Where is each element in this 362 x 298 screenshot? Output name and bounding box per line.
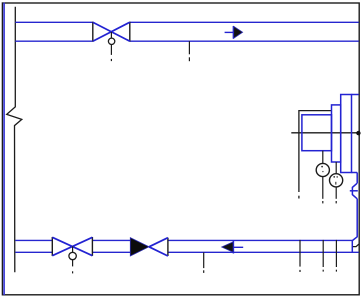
wire: suction ledge [352, 172, 358, 174]
wire: suction riser lower with chamfer into bottom pipe [352, 199, 357, 241]
pump P1 bearing box B [332, 105, 341, 162]
wire: discharge pipe to right border [352, 94, 359, 96]
instrument bubble I2 [330, 174, 343, 187]
pump P1 centerline [291, 132, 359, 134]
wire: top pipe upper line [15, 21, 359, 23]
wire: suction riser upper [356, 173, 358, 184]
reducer on suction riser [350, 183, 358, 199]
wire: blue pipe riser along left border [3, 3, 5, 295]
instrument line from box B [335, 162, 337, 174]
instrument bubble I1 [316, 163, 329, 176]
valve V1 stem with circle [108, 32, 114, 61]
signal line crossing pipe at x336 [335, 240, 337, 272]
signal line crossing pipe at x323 [322, 240, 324, 272]
wire: top pipe lower line [15, 40, 359, 42]
pump P1 motor box C [341, 95, 352, 173]
node: branch stub below top pipe [188, 41, 190, 61]
valve V2 stem with circle [69, 246, 76, 273]
wire: bottom pipe lower line [15, 251, 359, 253]
node: black step mark near bottom-right corner [353, 244, 359, 247]
instrument line below I2 [335, 187, 337, 204]
check valve V3 on bottom pipe (filled left disc) [130, 238, 168, 256]
flow arrow on top pipe (right) [225, 26, 243, 39]
node: branch stub below bottom pipe at x204 [203, 252, 205, 273]
instrument line from box A [322, 151, 324, 164]
valve V1 on top pipe [93, 22, 130, 42]
pump P1 shaft arrowhead at border [356, 130, 360, 137]
wire: bottom pipe upper line [15, 239, 352, 241]
valve V2 on bottom pipe [52, 237, 92, 256]
pump P1 black outline box [299, 111, 332, 199]
wire: pipe end cap at riser [351, 240, 353, 252]
flow arrow on bottom pipe (left) [222, 240, 244, 253]
wire: vertical black line with break symbol [7, 7, 22, 273]
pump P1 casing box A [302, 115, 332, 151]
signal line crossing pipe at x300 [299, 240, 301, 272]
instrument line below I1 [322, 177, 324, 204]
